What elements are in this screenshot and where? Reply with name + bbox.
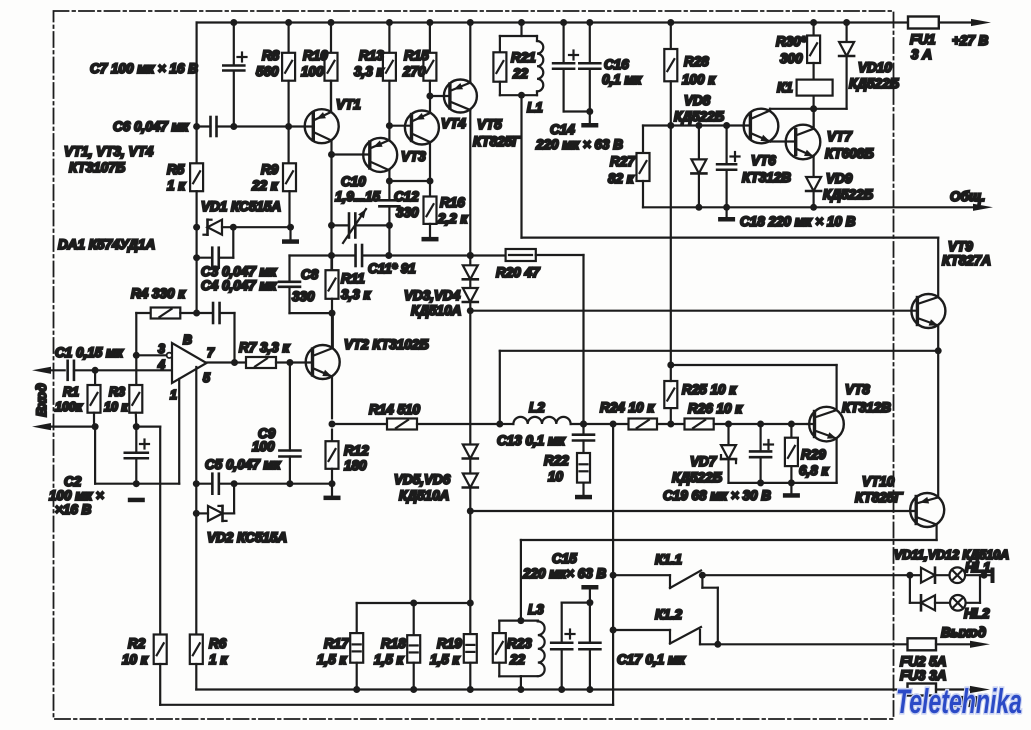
svg-text:VD9: VD9: [826, 171, 853, 186]
label R3 10 к: [104, 385, 128, 414]
resistor R17 1.5k: [350, 603, 363, 693]
svg-text:3,3 к: 3,3 к: [354, 64, 385, 79]
lamp HL1: [950, 567, 991, 583]
label C17 0,1 мк: [617, 652, 686, 667]
svg-text:R23: R23: [507, 636, 532, 651]
capacitor C11 91: [332, 245, 506, 266]
wire VT5 base line: [430, 95, 450, 97]
svg-text:100 мк ×: 100 мк ×: [49, 488, 104, 503]
svg-text:DA1 К574УД1А: DA1 К574УД1А: [58, 237, 155, 252]
capacitor C17 0.1mk: [579, 603, 600, 690]
transistor VT2 KT3102B: [306, 345, 340, 379]
label VT8 КТ312В: [842, 382, 891, 415]
label C11* 91: [368, 261, 416, 276]
svg-text:R30*: R30*: [776, 34, 807, 49]
svg-text:R2: R2: [128, 636, 146, 651]
label C12 330: [394, 189, 419, 220]
diode VD4 KD510A: [463, 279, 478, 314]
zener diode VD2 KS515A: [196, 484, 234, 521]
transistor VT7 KT608B: [786, 125, 821, 160]
svg-text:100: 100: [252, 439, 275, 454]
svg-text:VD7: VD7: [690, 454, 718, 469]
svg-text:×16 В: ×16 В: [55, 502, 92, 517]
capacitor C14 220mk63V electrolytic: [553, 23, 590, 112]
svg-text:L3: L3: [528, 602, 544, 617]
label R26 10 к: [688, 401, 743, 416]
wire VT7 collector diag: [796, 109, 814, 136]
svg-text:VT4: VT4: [441, 116, 466, 131]
label R15 270: [402, 48, 429, 79]
svg-text:HL1: HL1: [965, 560, 991, 575]
svg-text:Выход: Выход: [941, 625, 986, 640]
resistor R6 1k: [190, 635, 203, 690]
capacitor C2 100mk16V electrolytic: [125, 427, 149, 488]
svg-text:1 к: 1 к: [167, 178, 186, 193]
svg-text:FU3 3А: FU3 3А: [900, 668, 947, 683]
wire R28 long vertical to R25: [667, 126, 674, 369]
svg-text:1 к: 1 к: [209, 652, 228, 667]
wire VT8 collector diag: [671, 365, 837, 418]
svg-text:С4 0,047 мк: С4 0,047 мк: [201, 278, 278, 293]
resistor R28 100k: [664, 23, 677, 130]
wire VT4 collector diag: [412, 134, 434, 185]
label VT4: [441, 116, 466, 131]
svg-text:R3: R3: [109, 385, 125, 399]
svg-text:VT1: VT1: [336, 97, 361, 112]
svg-text:VD1 КС515А: VD1 КС515А: [201, 199, 281, 214]
wire op-amp pin1 down: [178, 379, 180, 484]
wire VT7 emitter diag: [796, 149, 814, 178]
wire VT4 emitter diag: [412, 96, 431, 122]
svg-text:100: 100: [301, 64, 324, 79]
svg-text:R26 10 к: R26 10 к: [688, 401, 743, 416]
diode VD12 KD510A: [921, 595, 950, 610]
resistor R29 6.8k: [783, 424, 800, 498]
svg-text:4: 4: [157, 358, 165, 372]
svg-text:R15: R15: [404, 48, 429, 63]
svg-text:К1.2: К1.2: [655, 607, 683, 622]
svg-text:С1 0,15 мк: С1 0,15 мк: [55, 345, 124, 360]
svg-text:КД522Б: КД522Б: [672, 470, 723, 485]
resistor R23 22: [493, 621, 521, 677]
capacitor C18 220mk10V electrolytic: [717, 126, 739, 211]
label VD10 КД522Б: [849, 60, 900, 91]
terminal bar after HL1: [991, 568, 995, 584]
label C6 0,047 мк: [113, 119, 190, 134]
resistor R19 1.5k: [464, 634, 477, 693]
svg-text:R16: R16: [440, 195, 465, 210]
label C16 0,1 мк: [602, 57, 643, 87]
wire VT1 collector diag: [313, 132, 335, 158]
svg-text:+27 В: +27 В: [952, 33, 989, 48]
label VT3: [401, 149, 426, 164]
resistor R27 82k: [637, 126, 650, 208]
label R2 10 к: [122, 636, 149, 667]
label VD3 VD4 КД510А: [404, 288, 461, 318]
label L1: [527, 100, 543, 115]
wire VT10 collector line: [517, 540, 936, 624]
capacitor C12 330: [379, 181, 399, 229]
resistor R25 10k: [664, 365, 677, 424]
chassis bar C14 C16: [581, 123, 598, 128]
label +27 В: [952, 33, 989, 48]
svg-text:220 мк× 63 В: 220 мк× 63 В: [522, 566, 607, 581]
label R22 10: [544, 453, 569, 484]
diode VD3 KD510A: [463, 256, 478, 280]
wire VT9 collector diag: [917, 238, 938, 304]
svg-text:С15: С15: [552, 551, 577, 566]
diode VD10 KD522B: [814, 23, 855, 109]
wire VT10 collector diag: [916, 517, 936, 540]
svg-text:R6: R6: [209, 636, 227, 651]
label 27 В hidden: [951, 695, 978, 709]
ground bar below C2: [128, 498, 145, 503]
svg-text:R7 3,3 к: R7 3,3 к: [239, 340, 291, 355]
resistor R21 22: [493, 52, 506, 95]
capacitor C5 0.047mk: [196, 474, 332, 494]
svg-text:6,8 к: 6,8 к: [799, 463, 830, 478]
svg-text:КД510А: КД510А: [399, 488, 449, 503]
fuse FU1 3A: [908, 17, 939, 29]
label R5 1 к: [167, 162, 186, 193]
transistor VT10 KT825G: [910, 493, 944, 527]
svg-text:22 к: 22 к: [251, 178, 279, 193]
chassis bar C15 top: [581, 585, 598, 606]
resistor R9 22k: [283, 127, 296, 231]
diode VD6 KD510A: [463, 459, 478, 515]
capacitor C7 100mk16V: [223, 23, 246, 131]
label R19 1,5 к: [430, 636, 462, 667]
label C14 220 мк 63 В: [535, 122, 623, 152]
svg-text:КТ825Г: КТ825Г: [473, 134, 521, 149]
relay coil K1: [797, 80, 833, 96]
capacitor C19 68mk30V electrolytic: [750, 424, 773, 486]
svg-text:С19 68 мк × 30 В: С19 68 мк × 30 В: [663, 488, 771, 503]
svg-text:VD5,VD6: VD5,VD6: [394, 472, 451, 487]
svg-text:С14: С14: [550, 122, 575, 137]
wire VT3emitter-R13 node to VT4 base: [389, 125, 411, 127]
label HL2: [964, 606, 990, 621]
wire op-amp output: [207, 359, 247, 366]
label R7 3,3 к: [239, 340, 291, 355]
label FU2 5А: [900, 654, 947, 669]
lamp HL2: [950, 575, 980, 610]
svg-text:С10: С10: [341, 174, 366, 189]
transistor VT9 KT827A: [911, 294, 945, 328]
resistor R4 330k: [133, 308, 197, 359]
wire VD4 node down to VD5: [469, 311, 471, 445]
wire mid vertical VT1col-C10-C11: [328, 155, 335, 271]
label R30* 300: [776, 34, 807, 66]
zener diode VD7 KD522B: [721, 424, 736, 483]
wire VT6 emitter diag: [750, 133, 795, 142]
wire VT2 collector diag: [313, 313, 333, 356]
resistor R8 560: [282, 23, 295, 131]
svg-text:КД522Б: КД522Б: [823, 187, 874, 202]
transistor VT6 KT312V: [744, 109, 779, 144]
svg-text:С16: С16: [604, 57, 629, 72]
label pin 5: [203, 371, 211, 385]
label VT5 КТ825Г: [473, 117, 521, 149]
svg-text:Teletehnika: Teletehnika: [896, 683, 1022, 721]
label R1 100к: [55, 385, 83, 414]
label R13 3,3 к: [354, 48, 385, 79]
fuse FU3 3A: [908, 684, 973, 696]
svg-text:R22: R22: [544, 453, 569, 468]
label R29 6,8 к: [799, 447, 830, 478]
wire VT9 emitter diag: [917, 318, 941, 354]
svg-text:КД522Б: КД522Б: [849, 76, 900, 91]
label pin B: [183, 333, 192, 347]
wire VT6 collector diag: [750, 105, 817, 119]
wire VT2 emitter diag: [313, 368, 333, 418]
wire lamp line: [906, 572, 921, 579]
diode VD8 KD522B: [691, 126, 706, 211]
svg-text:С5 0,047 мк: С5 0,047 мк: [205, 457, 282, 472]
label R9 22 к: [251, 162, 279, 193]
svg-text:С3 0,047 мк: С3 0,047 мк: [201, 264, 278, 279]
svg-text:С12: С12: [394, 189, 419, 204]
wire output line: [718, 643, 908, 645]
svg-text:VT8: VT8: [845, 382, 870, 397]
resistor R2 10k: [154, 635, 167, 705]
resistor R7 3.3k: [246, 357, 313, 368]
svg-text:КТ312В: КТ312В: [842, 400, 891, 415]
label R18 1,5 к: [374, 636, 406, 667]
wire bus-left corner down to C6 node: [193, 23, 200, 131]
svg-text:КТ608Б: КТ608Б: [825, 146, 874, 161]
label C19 68 мк 30 В: [663, 488, 771, 503]
transistor VT3 KT3107B: [363, 138, 397, 172]
svg-text:270: 270: [402, 64, 426, 79]
wire common rail Obshch: [643, 206, 975, 208]
svg-text:R4 330 к: R4 330 к: [131, 286, 186, 301]
label pin 3: [158, 342, 165, 356]
label Вход: [34, 383, 49, 416]
wire VT3 collector diag: [370, 162, 393, 185]
transistor VT8 KT312V: [808, 407, 844, 442]
svg-text:R20 47: R20 47: [496, 265, 541, 280]
diode VD9 KD522B: [806, 177, 821, 211]
svg-text:R24 10 к: R24 10 к: [600, 400, 655, 415]
svg-text:L2: L2: [529, 400, 545, 415]
svg-text:1,5 к: 1,5 к: [317, 652, 348, 667]
label К1.1: [655, 552, 682, 567]
label C1 0,15 мк: [55, 345, 124, 360]
svg-text:С17 0,1 мк: С17 0,1 мк: [617, 652, 686, 667]
label C10 1,9...15: [335, 174, 381, 204]
svg-text:С13 0,1 мк: С13 0,1 мк: [497, 433, 566, 448]
svg-text:220 мк × 63 В: 220 мк × 63 В: [535, 137, 623, 152]
resistor R11 3.3k: [326, 256, 339, 349]
resistor R10 100: [325, 23, 338, 113]
label VT6 КТ312В: [742, 153, 791, 185]
svg-text:3 А: 3 А: [911, 47, 932, 62]
label VD1 КС515А: [201, 199, 281, 214]
relay contact K1.1: [610, 571, 910, 589]
wire +27V top bus: [197, 19, 972, 26]
label Общ.: [950, 189, 985, 204]
label R21 22: [511, 50, 536, 81]
svg-text:R29: R29: [801, 447, 826, 462]
wire bottom return line: [196, 686, 907, 693]
arrow FU3 terminal: [970, 686, 990, 693]
svg-text:1,9...15: 1,9...15: [335, 189, 381, 204]
svg-text:VT10: VT10: [862, 474, 895, 489]
svg-text:КД522Б: КД522Б: [674, 109, 725, 124]
svg-text:7: 7: [207, 346, 215, 360]
wire VT1 emitter diag: [313, 81, 331, 121]
label R4 330 к: [131, 286, 186, 301]
svg-text:К1.1: К1.1: [655, 552, 682, 567]
svg-text:VT7: VT7: [827, 129, 853, 144]
svg-text:100к: 100к: [55, 400, 83, 414]
resistor R1 100k: [88, 370, 101, 483]
resistor R24 10k: [613, 419, 674, 430]
resistor R15 270: [423, 23, 436, 100]
svg-text:КТ3107Б: КТ3107Б: [69, 160, 126, 175]
svg-text:VT6: VT6: [751, 153, 776, 168]
resistor R14 510: [332, 419, 500, 430]
svg-text:R11: R11: [341, 271, 365, 286]
inductor L3: [521, 621, 545, 690]
capacitor C4 0.047mk: [197, 303, 235, 363]
svg-text:1: 1: [170, 388, 177, 402]
label pin 7: [207, 346, 215, 360]
svg-text:R21: R21: [511, 50, 536, 65]
arrow Vyhod terminal: [970, 641, 990, 648]
svg-text:R19: R19: [437, 636, 462, 651]
label L3: [528, 602, 544, 617]
trimmer capacitor C10 1.9-15: [332, 209, 390, 243]
label R14 510: [369, 402, 421, 417]
svg-text:R5: R5: [167, 162, 185, 177]
label C13 0,1 мк: [497, 433, 566, 448]
label R23 22: [507, 636, 532, 667]
inductor L1: [537, 36, 543, 95]
wire VD7-C19-R29 bottom: [729, 482, 837, 484]
svg-text:22: 22: [512, 66, 529, 81]
label VD11 VD12 КД510А: [894, 548, 1009, 562]
svg-text:VD10: VD10: [858, 60, 892, 75]
svg-text:VD8: VD8: [684, 93, 711, 108]
label VD9 КД522Б: [823, 171, 874, 202]
resistor R30* 300: [807, 23, 820, 80]
capacitor C15 220mk63V electrolytic: [551, 603, 590, 690]
svg-text:3,3 к: 3,3 к: [341, 287, 372, 302]
capacitor C8 330: [279, 256, 336, 317]
svg-text:R1: R1: [63, 385, 79, 399]
svg-text:560: 560: [256, 64, 279, 79]
wire K1.1 to K1.2 transfer: [702, 575, 717, 644]
svg-text:Вход: Вход: [34, 383, 49, 416]
svg-text:VT2 КТ3102Б: VT2 КТ3102Б: [344, 337, 429, 352]
ground bar below R9: [282, 227, 299, 244]
wire VD4 node to VT9 base: [470, 310, 917, 312]
capacitor C13 0.1mk: [573, 424, 594, 453]
svg-text:3: 3: [158, 342, 165, 356]
resistor R3 10k: [129, 355, 142, 430]
svg-text:HL2: HL2: [964, 606, 990, 621]
svg-text:VD3,VD4: VD3,VD4: [404, 288, 461, 303]
svg-text:10 к: 10 к: [122, 652, 149, 667]
resistor R12 180: [324, 421, 341, 501]
label К1.2: [655, 607, 683, 622]
fuse FU2 5A: [908, 638, 973, 650]
relay contact K1.2: [610, 627, 722, 648]
label R10 100: [301, 48, 328, 79]
label R16 2,2 к: [437, 195, 469, 226]
svg-text:330: 330: [396, 205, 419, 220]
label C2 100мк 16В: [49, 474, 104, 517]
svg-text:VT3: VT3: [401, 149, 426, 164]
wire input ground to R2: [136, 427, 160, 635]
label VD8 КД522Б: [674, 93, 725, 124]
label R17 1,5 к: [317, 636, 350, 667]
svg-text:VT9: VT9: [948, 239, 973, 254]
label VT9 КТ827А: [942, 239, 991, 268]
diode VD5 KD510A: [463, 445, 478, 459]
capacitor C16 0.1mk: [579, 23, 600, 124]
resistor R26 10k: [671, 419, 808, 430]
wire VT5 collector diag: [450, 102, 474, 260]
label C18 220 мк 10 В: [740, 214, 856, 229]
svg-text:1,5 к: 1,5 к: [430, 652, 461, 667]
label R20 47: [496, 265, 541, 280]
wire VT5 emitter diag: [450, 23, 471, 92]
svg-text:10 к: 10 к: [104, 400, 128, 414]
wire VT1 collector to VT3 base: [332, 153, 370, 155]
zener diode VD1 KS515A: [204, 220, 291, 235]
svg-text:R12: R12: [344, 443, 369, 458]
wire R2 bottom line: [160, 424, 613, 705]
label VT1 VT3 VT4 KT3107B: [64, 144, 154, 175]
label L2: [529, 400, 545, 415]
svg-text:VT5: VT5: [477, 117, 502, 132]
svg-text:К1: К1: [777, 80, 793, 95]
transistor VT4 KT3107B: [405, 111, 439, 145]
wire VD12 branch: [910, 575, 921, 603]
wire R20 right down to L2 node: [536, 255, 587, 428]
svg-text:R17: R17: [324, 636, 350, 651]
resistor R18 1.5k: [407, 603, 420, 693]
svg-text:Общ.: Общ.: [950, 189, 985, 204]
label R24 10 к: [600, 400, 655, 415]
resistor R16 2.2k: [422, 181, 439, 241]
svg-text:R13: R13: [359, 48, 384, 63]
svg-text:10: 10: [548, 469, 564, 484]
svg-text:300: 300: [780, 51, 803, 66]
wire node A vertical: [193, 227, 200, 316]
transistor VT5 KT825G: [444, 80, 477, 113]
label HL1: [965, 560, 991, 575]
label К1: [777, 80, 793, 95]
svg-text:R8: R8: [262, 48, 280, 63]
svg-text:С11* 91: С11* 91: [368, 261, 416, 276]
svg-text:R10: R10: [303, 48, 328, 63]
label VD5 VD6 КД510А: [394, 472, 451, 503]
label C15 220мк 63В: [522, 551, 607, 581]
label C3 0,047 мк: [201, 264, 278, 279]
label C4 0,047 мк: [201, 278, 278, 293]
wire op-amp pin3 input: [136, 353, 172, 358]
arrow input upper: [32, 367, 65, 374]
label VT10 КТ825Г: [855, 474, 903, 505]
svg-text:22: 22: [509, 652, 526, 667]
svg-text:КТ825Г: КТ825Г: [855, 490, 903, 505]
resistor R22 10: [575, 453, 592, 499]
capacitor C9 100: [279, 363, 300, 484]
